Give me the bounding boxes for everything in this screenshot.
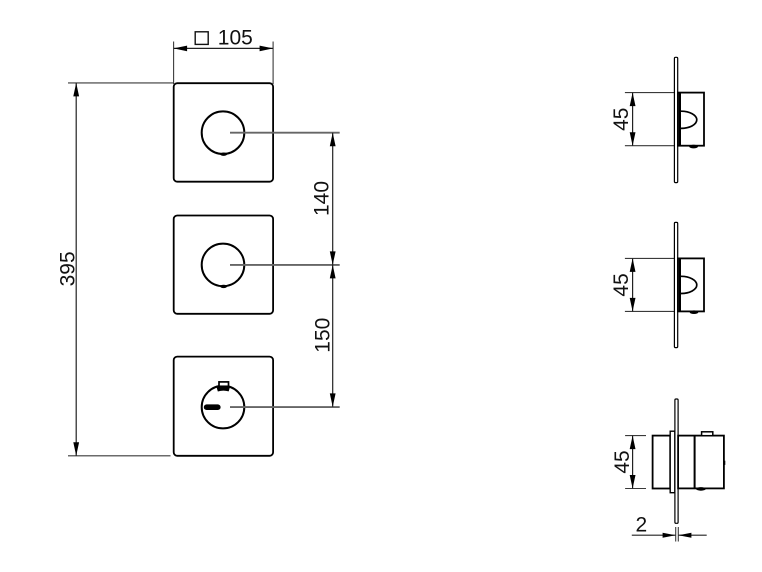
- V1 extension line bottom: [625, 145, 704, 147]
- knob circle C2: [202, 244, 245, 287]
- V3 wall plate (side): [675, 399, 678, 523]
- knob circle C1: [202, 111, 245, 154]
- arrowhead 140 top: [330, 133, 336, 147]
- C1 bottom tick: [220, 153, 227, 156]
- V2 knob body (side): [678, 258, 704, 311]
- leader line from C1 center: [230, 132, 340, 134]
- V1 bottom detail: [689, 145, 698, 149]
- arrowhead 105 right: [260, 46, 274, 52]
- svg-text:45: 45: [610, 108, 633, 131]
- extension line 395 bottom: [68, 455, 171, 457]
- dimension line 2 left part: [632, 534, 676, 536]
- V1 extension line top: [625, 92, 704, 94]
- svg-text:45: 45: [611, 450, 634, 473]
- plate square S1: [174, 83, 273, 182]
- V2 dimension line 45: [632, 258, 634, 311]
- V2 wall plate (side): [674, 222, 677, 347]
- svg-text:140: 140: [311, 181, 334, 216]
- dimension line 150: [332, 265, 334, 407]
- extension line 395 top: [68, 82, 174, 84]
- V1 wall plate (side): [674, 57, 677, 182]
- V1 dimension line 45: [632, 93, 634, 146]
- dimension line 395: [75, 83, 77, 456]
- V3 mounting flange: [670, 431, 675, 493]
- V2 handle profile curve: [681, 276, 697, 293]
- arrowhead 140 bottom: [330, 251, 336, 265]
- svg-text:2: 2: [635, 514, 647, 537]
- V2 arrowhead bottom: [630, 298, 636, 312]
- dimension line 2 right part: [678, 534, 706, 536]
- arrowhead 150 top: [330, 265, 336, 279]
- extension line 105 left: [173, 42, 175, 85]
- plate square S2: [174, 216, 273, 314]
- svg-text:105: 105: [218, 26, 253, 49]
- arrowhead 395 bottom: [73, 442, 79, 456]
- leader line from C2 center: [230, 264, 340, 266]
- V3 arrowhead bottom: [630, 475, 636, 489]
- C3 left dash: [207, 404, 218, 410]
- V2 arrowhead top: [630, 258, 636, 272]
- arrowhead 2 right: [678, 533, 691, 538]
- V2 bottom detail: [690, 310, 699, 314]
- V3 arrowhead top: [630, 436, 636, 450]
- extension line 105 right: [272, 42, 274, 85]
- arrowhead 395 top: [73, 83, 79, 97]
- extension line 2 right: [677, 527, 679, 542]
- dimension line 140: [332, 133, 334, 265]
- V3 bottom detail: [696, 487, 706, 491]
- V3 top button: [702, 432, 713, 436]
- arrowhead 2 left: [663, 533, 676, 538]
- V2 base flange line: [679, 259, 681, 311]
- V1 handle profile curve: [681, 111, 697, 128]
- V3 extension line top: [625, 435, 646, 437]
- C3 top grip arc: [217, 386, 229, 391]
- svg-text:45: 45: [610, 273, 633, 296]
- V1 knob body (side): [678, 93, 704, 146]
- square symbol for 105: [195, 32, 208, 45]
- V1 arrowhead top: [630, 93, 636, 107]
- svg-text:150: 150: [312, 318, 335, 353]
- V2 extension line top: [625, 257, 704, 259]
- extension line 2 left: [675, 527, 677, 542]
- V3 dimension line 45: [632, 436, 634, 489]
- V3 right notch: [724, 461, 726, 465]
- plate square S3: [174, 357, 273, 456]
- C3 safety button: [219, 382, 229, 386]
- dimension line 105: [174, 47, 274, 49]
- V1 arrowhead bottom: [630, 132, 636, 146]
- C2 bottom tick: [220, 285, 227, 288]
- V3 knob body (side): [678, 436, 724, 489]
- leader line from C3 center: [230, 406, 340, 408]
- V3 extension line bottom: [625, 488, 646, 490]
- V3 body divider line: [694, 436, 696, 488]
- V1 base flange line: [679, 93, 681, 145]
- arrowhead 105 left: [174, 46, 188, 52]
- thermostat knob circle C3: [202, 386, 245, 429]
- arrowhead 150 bottom: [330, 393, 336, 407]
- V2 extension line bottom: [625, 310, 704, 312]
- svg-text:395: 395: [56, 251, 79, 286]
- V3 in-wall body: [653, 436, 671, 489]
